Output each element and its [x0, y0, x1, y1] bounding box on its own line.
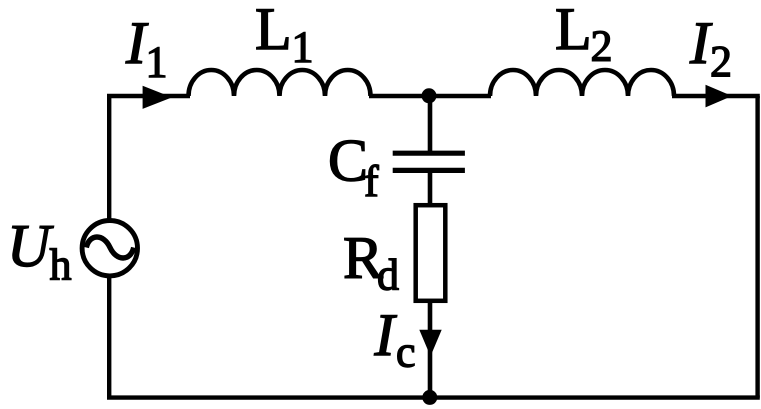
- resistor R_d: [416, 205, 446, 301]
- wire resistor to bottom: [428, 300, 433, 398]
- capacitor C_f: [393, 153, 465, 170]
- svg-text:c: c: [396, 328, 416, 377]
- current arrow Ic: [419, 330, 441, 356]
- wire right side: [755, 96, 759, 398]
- wire bottom: [107, 395, 760, 399]
- wire top-middle segment: [369, 94, 491, 99]
- svg-text:f: f: [364, 157, 379, 206]
- label Ic: [374, 302, 416, 377]
- svg-text:d: d: [377, 251, 399, 300]
- wire left side: [107, 96, 111, 398]
- node junction top: [422, 88, 437, 103]
- svg-text:2: 2: [710, 37, 732, 86]
- inductor L1: [189, 70, 371, 96]
- svg-text:I: I: [374, 302, 398, 368]
- source Uh: [82, 221, 137, 276]
- label Uh: [7, 213, 72, 290]
- svg-text:2: 2: [591, 22, 613, 71]
- svg-text:U: U: [7, 213, 54, 279]
- svg-text:1: 1: [292, 23, 314, 72]
- wire top-right segment: [672, 94, 760, 99]
- label Rd: [343, 225, 399, 300]
- svg-text:L: L: [555, 0, 592, 62]
- node junction bottom: [422, 390, 437, 405]
- wire capacitor to resistor: [428, 170, 433, 207]
- wire top-left segment: [107, 94, 190, 99]
- label Cf: [328, 128, 379, 207]
- svg-text:h: h: [50, 241, 72, 290]
- wire middle branch node to capacitor: [428, 94, 433, 152]
- label L2: [555, 0, 613, 71]
- label L1: [255, 0, 314, 72]
- svg-text:C: C: [328, 128, 368, 194]
- label I1: [125, 10, 168, 86]
- label I2: [689, 10, 732, 86]
- svg-text:L: L: [255, 0, 292, 62]
- inductor L2: [490, 70, 674, 96]
- svg-text:1: 1: [146, 37, 168, 86]
- current arrow I2: [706, 85, 733, 108]
- current arrow I1: [143, 86, 172, 109]
